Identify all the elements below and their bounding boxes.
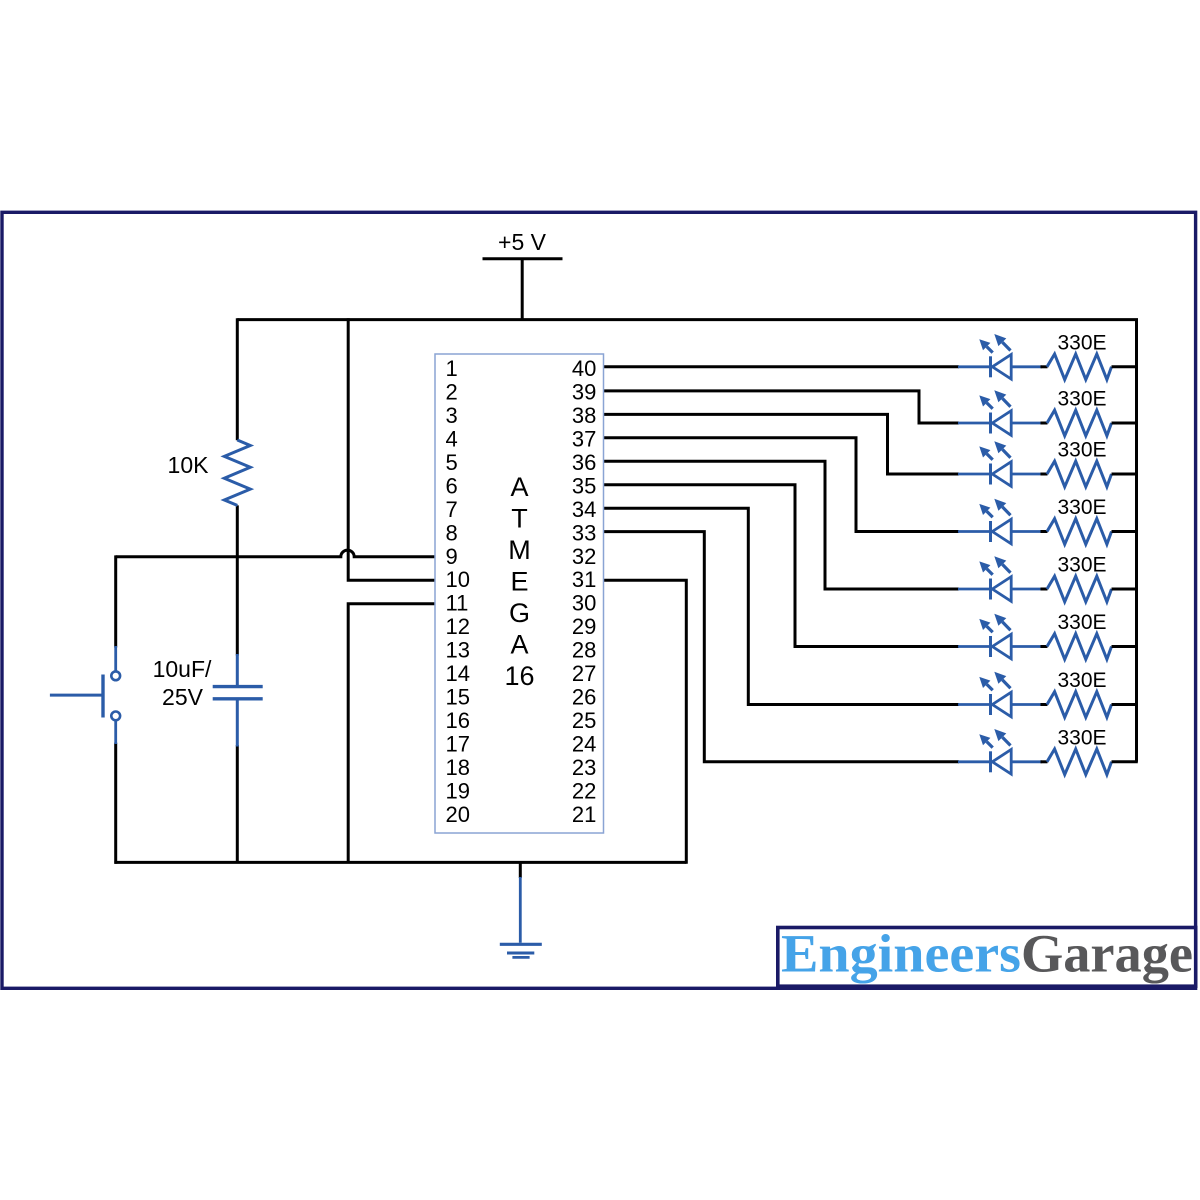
svg-text:T: T [511,503,528,533]
svg-text:21: 21 [572,802,596,827]
svg-text:34: 34 [572,497,596,522]
svg-text:38: 38 [572,403,596,428]
svg-text:10uF/: 10uF/ [153,656,212,682]
svg-text:23: 23 [572,755,596,780]
svg-text:4: 4 [446,427,458,452]
svg-text:10K: 10K [168,452,210,478]
svg-text:19: 19 [446,778,470,803]
svg-text:33: 33 [572,520,596,545]
svg-text:29: 29 [572,614,596,639]
svg-text:40: 40 [572,356,596,381]
svg-text:27: 27 [572,661,596,686]
svg-text:15: 15 [446,685,470,710]
svg-text:31: 31 [572,567,596,592]
svg-text:3: 3 [446,403,458,428]
svg-text:Garage: Garage [1021,924,1193,984]
svg-text:17: 17 [446,731,470,756]
svg-text:30: 30 [572,591,596,616]
svg-text:20: 20 [446,802,470,827]
svg-text:39: 39 [572,380,596,405]
svg-text:A: A [510,629,528,659]
svg-text:M: M [508,535,531,565]
svg-text:9: 9 [446,544,458,569]
svg-text:8: 8 [446,520,458,545]
svg-text:16: 16 [446,708,470,733]
svg-text:35: 35 [572,473,596,498]
svg-text:22: 22 [572,778,596,803]
svg-text:5: 5 [446,450,458,475]
svg-text:7: 7 [446,497,458,522]
svg-text:18: 18 [446,755,470,780]
svg-text:28: 28 [572,638,596,663]
svg-text:37: 37 [572,427,596,452]
svg-text:6: 6 [446,473,458,498]
svg-text:12: 12 [446,614,470,639]
svg-text:+5 V: +5 V [498,229,547,255]
svg-text:Engineers: Engineers [781,924,1021,984]
svg-text:11: 11 [446,591,469,616]
svg-text:14: 14 [446,661,470,686]
svg-text:25V: 25V [162,684,204,710]
svg-text:26: 26 [572,685,596,710]
svg-text:E: E [510,566,528,596]
svg-text:13: 13 [446,638,470,663]
svg-text:10: 10 [446,567,470,592]
svg-text:16: 16 [504,661,534,691]
svg-text:2: 2 [446,380,458,405]
svg-text:24: 24 [572,731,596,756]
svg-text:36: 36 [572,450,596,475]
svg-text:32: 32 [572,544,596,569]
svg-text:25: 25 [572,708,596,733]
svg-text:G: G [509,598,530,628]
svg-text:A: A [510,472,528,502]
svg-text:1: 1 [446,356,458,381]
